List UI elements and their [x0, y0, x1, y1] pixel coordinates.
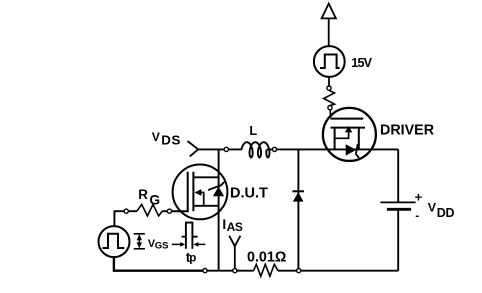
svg-text:p: p: [189, 253, 196, 265]
svg-text:DD: DD: [437, 206, 455, 220]
svg-text:V: V: [152, 130, 161, 144]
svg-text:L: L: [249, 123, 257, 138]
svg-text:0.01Ω: 0.01Ω: [247, 249, 286, 265]
svg-text:AS: AS: [227, 220, 243, 234]
svg-text:R: R: [138, 187, 148, 202]
svg-text:G: G: [149, 192, 160, 207]
svg-text:V: V: [428, 200, 437, 214]
svg-text:GS: GS: [155, 241, 169, 252]
svg-text:+: +: [415, 189, 423, 204]
svg-text:15V: 15V: [351, 56, 372, 70]
svg-text:DS: DS: [161, 132, 181, 147]
svg-text:D.U.T: D.U.T: [230, 186, 268, 202]
svg-text:-: -: [415, 208, 419, 222]
svg-text:DRIVER: DRIVER: [380, 122, 435, 138]
